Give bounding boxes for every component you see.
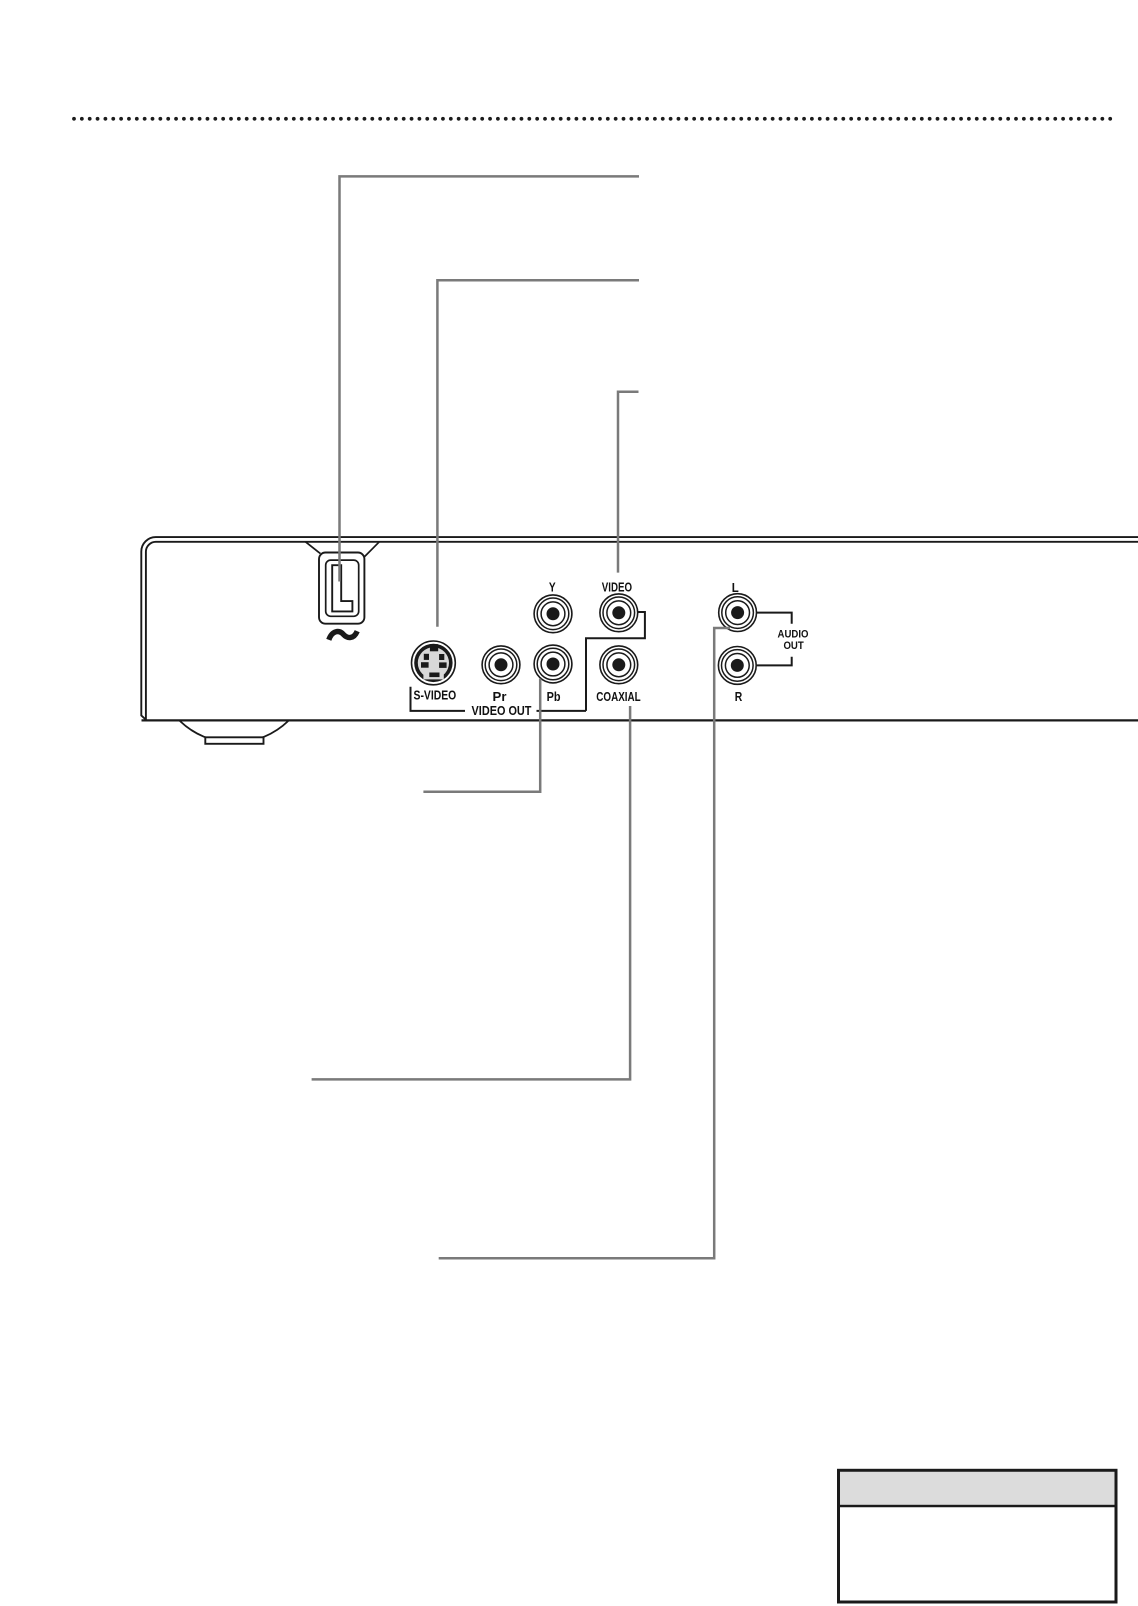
AC socket L-shaped opening <box>332 565 352 611</box>
note box <box>839 1470 1117 1602</box>
RCA jack Pr <box>482 646 520 684</box>
S-VIDEO group bracket <box>411 687 466 711</box>
note box header divider <box>839 1505 1117 1508</box>
RCA jack Y <box>534 595 572 633</box>
AC inlet flare right <box>364 542 379 557</box>
VIDEO OUT right bracket to VIDEO jack <box>537 612 645 711</box>
svg-text:OUT: OUT <box>783 640 804 652</box>
dotted rule <box>74 117 1117 121</box>
svg-text:AUDIO: AUDIO <box>778 628 809 640</box>
rear panel inner edge <box>146 542 1138 720</box>
leader line from audio jacks <box>439 628 730 1258</box>
RCA jack VIDEO <box>600 594 638 632</box>
leader line from Pb jack <box>423 679 540 792</box>
svg-text:Pr: Pr <box>493 690 507 704</box>
svg-text:R: R <box>735 690 743 704</box>
leader line to S-Video jack <box>437 280 639 627</box>
AC inlet inner bezel <box>326 560 359 616</box>
svg-text:L: L <box>732 581 739 595</box>
svg-text:VIDEO: VIDEO <box>602 581 633 595</box>
svg-text:Y: Y <box>549 581 556 595</box>
AUDIO OUT bracket top <box>757 613 792 624</box>
svg-text:S-VIDEO: S-VIDEO <box>414 689 457 703</box>
S-Video connector U1 <box>412 641 456 685</box>
rear panel outer edge <box>141 537 1138 720</box>
rear panel bottom edge <box>142 719 1138 721</box>
foot pad <box>205 737 263 744</box>
RCA jack audio R <box>718 647 756 685</box>
svg-text:Pb: Pb <box>547 690 561 704</box>
leader line from COAXIAL jack <box>312 706 630 1079</box>
AC tilde symbol <box>329 631 357 640</box>
RCA jack COAXIAL <box>600 646 638 684</box>
note box header band <box>840 1472 1115 1505</box>
AUDIO OUT bracket bottom <box>757 657 792 666</box>
svg-text:VIDEO OUT: VIDEO OUT <box>472 704 532 718</box>
svg-text:COAXIAL: COAXIAL <box>596 690 641 704</box>
foot arc <box>180 721 288 743</box>
leader line to AC inlet <box>340 176 640 581</box>
AC inlet outer bezel <box>319 553 364 624</box>
RCA jack Pb <box>534 645 572 683</box>
AC inlet flare left <box>306 542 321 554</box>
RCA jack audio L <box>719 594 757 632</box>
leader line to VIDEO jack <box>618 392 639 573</box>
